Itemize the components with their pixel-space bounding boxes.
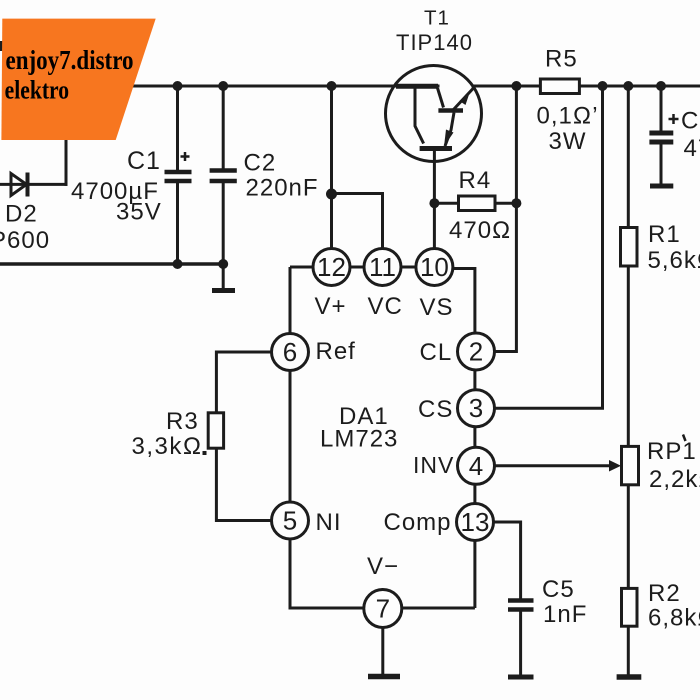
svg-text:VC: VC bbox=[368, 293, 403, 320]
wire RP1 to R2 bbox=[627, 485, 630, 589]
svg-text:R2: R2 bbox=[648, 580, 681, 607]
ground under C3 bbox=[650, 184, 673, 189]
pin 11 bbox=[364, 249, 401, 286]
junction dots bbox=[173, 81, 667, 269]
wire V+ VC riser bbox=[332, 86, 383, 249]
svg-text:CS: CS bbox=[418, 396, 453, 423]
wire CS riser bbox=[496, 86, 603, 408]
wire R2 to ground bbox=[627, 626, 630, 674]
svg-text:Ref: Ref bbox=[316, 338, 356, 365]
svg-text:INV: INV bbox=[413, 452, 454, 478]
watermark banner bbox=[1, 19, 155, 140]
wire R5 leads bbox=[516, 85, 602, 88]
potentiometer RP1 bbox=[609, 446, 639, 484]
svg-text:5: 5 bbox=[283, 506, 297, 536]
svg-text:D2: D2 bbox=[5, 201, 38, 228]
svg-text:Comp: Comp bbox=[384, 509, 452, 536]
svg-text:P600: P600 bbox=[0, 227, 50, 254]
wire bottom 0V rail bbox=[0, 262, 223, 266]
svg-text:R4: R4 bbox=[459, 167, 492, 194]
svg-text:CL: CL bbox=[420, 339, 453, 366]
wire C1 branch bbox=[176, 86, 179, 264]
wire CL riser bbox=[495, 86, 517, 352]
pin 3 bbox=[458, 390, 495, 427]
pin 12 bbox=[313, 249, 350, 286]
svg-text:12: 12 bbox=[317, 252, 346, 282]
svg-text:6,8kΩ: 6,8kΩ bbox=[648, 605, 700, 632]
svg-text:NI: NI bbox=[316, 509, 342, 536]
svg-text:7: 7 bbox=[376, 594, 390, 624]
ground under R2 bbox=[617, 674, 642, 680]
resistor R1 bbox=[621, 228, 638, 267]
resistor R3 bbox=[208, 413, 223, 448]
svg-text:220nF: 220nF bbox=[246, 175, 319, 202]
pin 4 bbox=[458, 447, 495, 484]
wire INV to RP1 wiper bbox=[495, 464, 613, 467]
svg-text:0,1Ω’: 0,1Ω’ bbox=[537, 103, 599, 130]
svg-text:TIP140: TIP140 bbox=[396, 30, 473, 55]
wire output cap branch bbox=[660, 86, 663, 184]
svg-text:C2: C2 bbox=[244, 150, 277, 177]
pin 7 bbox=[364, 590, 402, 628]
svg-text:2: 2 bbox=[469, 337, 483, 367]
svg-text:enjoy7.distro: enjoy7.distro bbox=[6, 45, 134, 75]
wire C2 branch bbox=[222, 86, 225, 288]
svg-text:13: 13 bbox=[461, 507, 490, 537]
svg-text:LM723: LM723 bbox=[320, 426, 398, 453]
svg-text:11: 11 bbox=[369, 252, 396, 282]
svg-text:VS: VS bbox=[420, 294, 454, 321]
wire T1 base to pin10 bbox=[433, 149, 436, 249]
transistor Q1 T1 TIP140 bbox=[386, 66, 482, 162]
ground under C2 bbox=[212, 288, 235, 293]
svg-text:6: 6 bbox=[283, 337, 297, 367]
edge mark left bbox=[0, 41, 4, 51]
wire pin13 to C5 bbox=[494, 522, 521, 674]
capacitor C2 bbox=[210, 171, 237, 182]
svg-text:3: 3 bbox=[469, 393, 483, 423]
resistor R4 bbox=[459, 196, 496, 211]
wire R1 branch bbox=[627, 86, 630, 446]
svg-text:3W: 3W bbox=[549, 128, 587, 155]
svg-text:2,2kΩ: 2,2kΩ bbox=[649, 466, 700, 493]
svg-text:1nF: 1nF bbox=[543, 601, 587, 628]
svg-text:V+: V+ bbox=[315, 293, 347, 320]
svg-text:470: 470 bbox=[684, 135, 700, 162]
pin numbers bbox=[283, 252, 490, 624]
pin 6 bbox=[272, 334, 309, 371]
capacitor C1 bbox=[165, 152, 192, 181]
svg-text:C3: C3 bbox=[681, 108, 700, 135]
svg-text:C1: C1 bbox=[127, 147, 161, 175]
svg-text:10: 10 bbox=[420, 252, 449, 282]
svg-text:T1: T1 bbox=[424, 7, 450, 30]
svg-text:V−: V− bbox=[367, 553, 399, 580]
tick mark near RP1 bbox=[683, 435, 686, 442]
wire top input rail left of T1 bbox=[60, 85, 438, 88]
resistor R5 bbox=[540, 79, 579, 94]
ground under C5 bbox=[508, 675, 534, 680]
wire pin7 to ground bbox=[381, 627, 384, 673]
pin 13 bbox=[457, 504, 494, 541]
pin 5 bbox=[272, 502, 309, 539]
svg-text:470Ω: 470Ω bbox=[449, 217, 511, 244]
svg-text:elektro: elektro bbox=[5, 76, 70, 105]
diode D2 bbox=[11, 173, 28, 197]
pin 2 bbox=[458, 333, 495, 370]
ground under pin7 bbox=[368, 674, 400, 680]
capacitor C5 bbox=[508, 601, 534, 610]
svg-text:R3: R3 bbox=[166, 408, 199, 435]
op-amp U1 IC outline DA1 bbox=[290, 267, 475, 608]
pin 10 bbox=[416, 249, 453, 286]
svg-text:5,6kΩ: 5,6kΩ bbox=[648, 247, 700, 274]
resistor R2 bbox=[622, 588, 638, 626]
wire diode to hidden node bbox=[0, 183, 66, 186]
svg-text:R1: R1 bbox=[648, 221, 681, 248]
svg-text:C5: C5 bbox=[542, 576, 575, 603]
wire R3 loop pin6 to pin5 bbox=[216, 352, 271, 521]
svg-text:R5: R5 bbox=[545, 46, 578, 73]
svg-text:3,3kΩ: 3,3kΩ bbox=[132, 433, 203, 460]
svg-text:RP1: RP1 bbox=[647, 438, 697, 465]
svg-text:35V: 35V bbox=[116, 199, 162, 226]
svg-text:4: 4 bbox=[469, 451, 483, 481]
wire riser under banner bbox=[65, 130, 68, 184]
wire top output rail right of T1 bbox=[473, 85, 700, 88]
capacitor C3 output bbox=[649, 114, 678, 142]
wire R4 leads bbox=[434, 202, 516, 205]
pin circles bbox=[272, 249, 495, 628]
dot after 3,3k ohm bbox=[203, 451, 207, 455]
